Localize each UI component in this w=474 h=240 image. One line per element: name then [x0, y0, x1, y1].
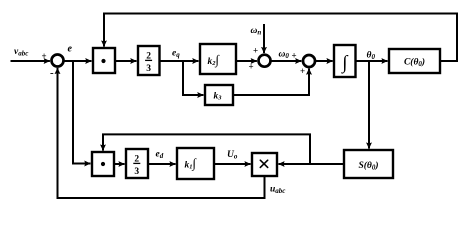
label e_q: [172, 49, 180, 60]
wire: branch of theta_0 down into S block: [368, 61, 370, 149]
gain block 2/3 (top): [138, 46, 160, 75]
wire: second summing junction to integrator: [315, 60, 333, 62]
wire: branch of e_q down to k3 block: [183, 61, 204, 95]
svg-text:vabc: vabc: [14, 47, 28, 58]
wire: branch of S output up and left into lower dot box: [103, 134, 310, 164]
wire: k3 output up into second summing junction: [233, 69, 309, 96]
svg-text:ω0: ω0: [279, 50, 290, 61]
svg-text:+: +: [300, 66, 305, 76]
svg-text:e: e: [68, 44, 73, 55]
plus sign before second summing junction: [292, 51, 297, 61]
gain block 2/3 (bottom): [126, 149, 148, 178]
multiplier (dot) box top: [93, 48, 115, 73]
wire: theta_0 from integrator to C block: [356, 60, 388, 62]
svg-text:+: +: [249, 62, 254, 72]
label v_abc: [14, 47, 28, 58]
svg-text:uabc: uabc: [270, 185, 285, 196]
wire: k2 output to first frequency summing junction: [236, 60, 257, 62]
plus sign at k3 input of second summing junction: [300, 66, 305, 76]
integrator block k1: [177, 148, 214, 179]
svg-text:-: -: [50, 67, 54, 79]
svg-text:eq: eq: [172, 49, 180, 60]
svg-text:ωn: ωn: [251, 26, 262, 37]
label u_abc: [270, 185, 285, 196]
label omega_n: [251, 26, 262, 37]
svg-text:C(θ0): C(θ0): [404, 57, 425, 69]
wire: U_o from k1 to x box: [214, 163, 251, 165]
wire: omega_n arrow down into first frequency summing junction: [263, 24, 265, 53]
multiplier x box: [252, 153, 277, 176]
svg-text:3: 3: [146, 64, 151, 74]
integrator block k2: [200, 44, 236, 74]
plus sign below k2 wire: [249, 62, 254, 72]
svg-text:+: +: [292, 51, 297, 61]
svg-text:θ0: θ0: [367, 51, 376, 62]
wire: e_q from 2/3 to k2-integrator: [160, 60, 199, 62]
svg-text:3: 3: [134, 167, 139, 177]
svg-text:ed: ed: [156, 150, 164, 161]
plus sign at omega_n input: [253, 46, 258, 56]
wire: lower dot box to 2/3 block (bottom): [114, 163, 125, 165]
label e: [68, 44, 73, 55]
plus sign at summing junction input: [42, 51, 47, 61]
wire: u_abc from x box down, along bottom, up into summing junction minus input: [58, 68, 265, 198]
wire: omega_0 to second summing junction: [270, 60, 301, 62]
wire: error e to top dot-product box: [63, 60, 91, 62]
svg-text:S(θ0): S(θ0): [358, 160, 378, 172]
wire: S output to multiplier x box: [278, 163, 344, 165]
minus sign at summing junction feedback input: [50, 67, 54, 79]
label theta_0: [367, 51, 376, 62]
wire: C output feedback along the top into top dot box: [104, 14, 457, 62]
integrator block: [334, 45, 356, 77]
svg-text:Uo: Uo: [227, 150, 238, 161]
summing junction theta-rate: [303, 55, 315, 67]
summing junction omega: [259, 55, 271, 67]
wire: branch of e down to lower dot-product box: [73, 61, 91, 164]
svg-text:+: +: [253, 46, 258, 56]
svg-text:+: +: [42, 51, 47, 61]
summing junction (error): [52, 55, 64, 67]
label omega_0: [279, 50, 290, 61]
multiplier (dot) box bottom: [92, 152, 114, 176]
label U_o: [227, 150, 238, 161]
wire: e_d from 2/3 to k1-integrator: [148, 163, 176, 165]
wire: v_abc input arrow into summing junction: [11, 60, 50, 62]
label e_d: [156, 150, 164, 161]
wire: dot box to 2/3 block (top): [115, 60, 137, 62]
transformation block S(theta0): [344, 150, 393, 178]
transformation block C(theta0): [389, 49, 440, 73]
gain block k3: [205, 85, 233, 105]
